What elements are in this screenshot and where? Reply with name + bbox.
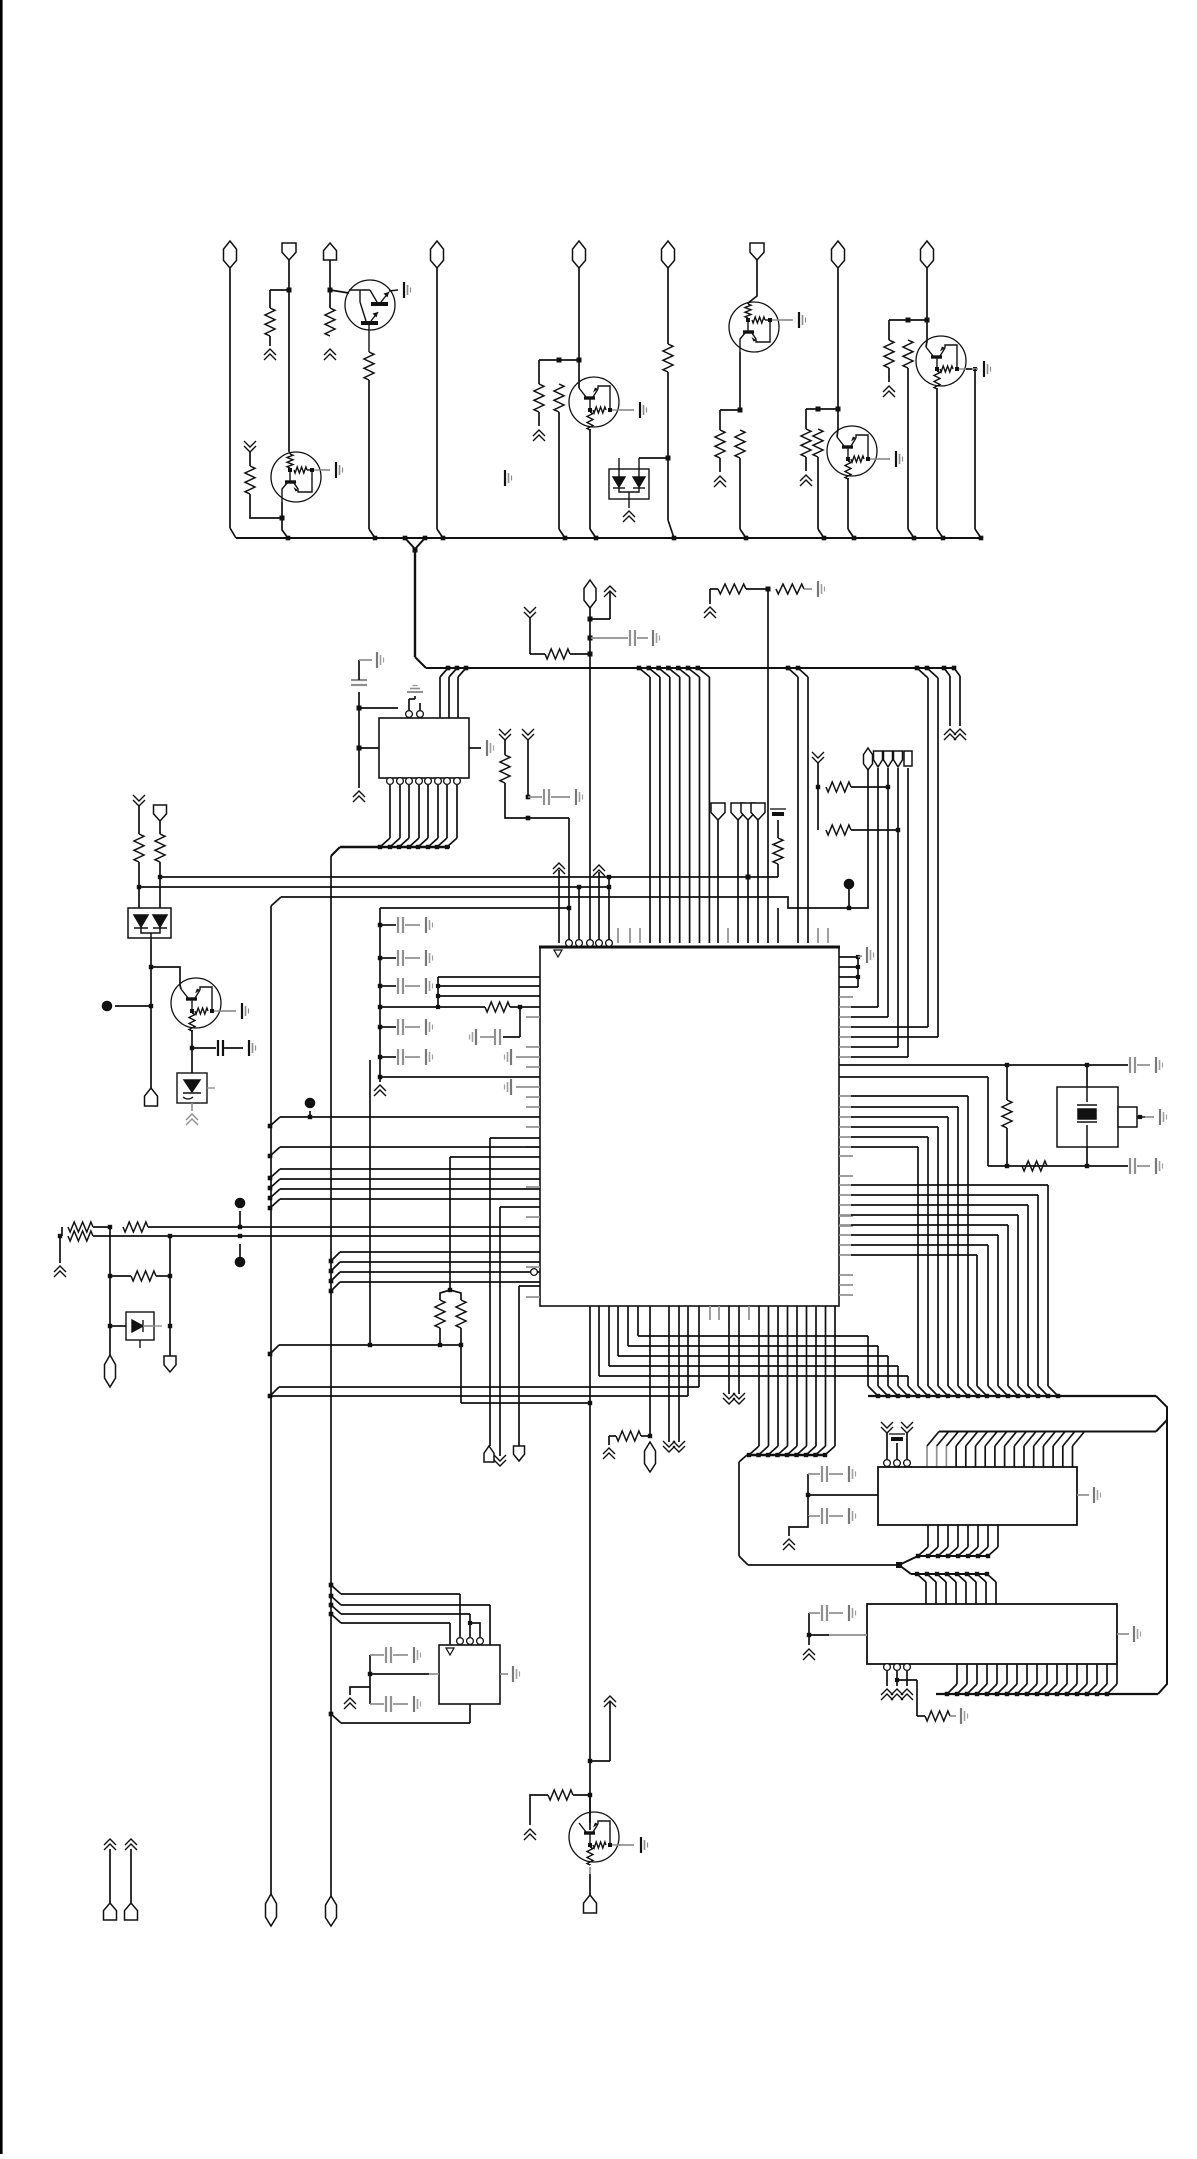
rail y1077 xyxy=(839,1076,988,1078)
wire bend xyxy=(659,668,670,677)
wire jog xyxy=(470,1623,480,1637)
bus ICR2-bot xyxy=(936,1693,1158,1695)
wire bend xyxy=(270,1179,280,1188)
wire drop xyxy=(967,1096,969,1386)
wire W1 xyxy=(269,290,271,308)
junction J71 xyxy=(378,1005,382,1009)
supply arrow xyxy=(593,865,605,876)
wire W29 xyxy=(888,368,890,382)
bus IC1-out xyxy=(340,846,450,849)
wire bend xyxy=(418,838,428,847)
IC U5 xyxy=(439,1645,500,1704)
wire IC1 pin xyxy=(439,677,441,718)
junction J22 xyxy=(912,536,917,541)
wire bend xyxy=(698,668,710,677)
junction J137 xyxy=(1046,1394,1050,1398)
wire bend xyxy=(825,1446,835,1455)
pin P20 xyxy=(894,1664,901,1671)
wire grey stub xyxy=(839,1184,851,1186)
wire bend xyxy=(998,1386,1008,1396)
bus U1-bot xyxy=(747,1454,827,1456)
resistor R7 xyxy=(663,344,673,372)
wire drop xyxy=(1007,1225,1009,1386)
wire W24 xyxy=(817,457,819,529)
wire grey xyxy=(405,985,420,987)
junction J41 xyxy=(416,845,420,849)
wire grey stub xyxy=(526,1126,540,1128)
wire ICR1 pin xyxy=(987,1525,989,1547)
resistor R6 xyxy=(554,384,564,412)
junction J7 xyxy=(738,408,743,413)
wire ICR2 pin xyxy=(1116,1664,1118,1684)
wire grey stub xyxy=(526,1016,540,1018)
wire W54 xyxy=(949,676,951,726)
wire W7 xyxy=(281,502,283,518)
connector P24 xyxy=(894,751,903,767)
wire W36 xyxy=(590,618,610,620)
wire bend xyxy=(944,668,950,676)
transistor Q3 xyxy=(569,377,619,430)
wire from P1 xyxy=(229,268,231,528)
supply arrow xyxy=(553,863,565,874)
junction J64 xyxy=(526,816,531,821)
rail y1007 xyxy=(851,1006,878,1008)
wire W92 xyxy=(156,1275,170,1277)
wire W82 xyxy=(439,1328,441,1345)
wire W32 xyxy=(966,368,972,370)
wire bend xyxy=(927,668,938,678)
wire IC1 pin xyxy=(437,785,439,838)
junction J168 xyxy=(945,1692,949,1696)
wire ICR1 pin xyxy=(1023,1446,1025,1467)
junction J179 xyxy=(1055,1692,1059,1696)
wire grey stub xyxy=(526,1186,540,1188)
junction J94 xyxy=(168,1274,172,1278)
resistor R29 xyxy=(826,825,851,835)
wire bend xyxy=(759,1446,769,1455)
wire W108 xyxy=(191,1048,193,1073)
rail y1236 xyxy=(93,1235,540,1237)
IC U4 xyxy=(867,1604,1117,1664)
junction J46 xyxy=(647,666,652,671)
wire grey xyxy=(619,409,634,411)
wire drop xyxy=(927,1137,929,1386)
wire riser xyxy=(897,768,899,1047)
junction J171 xyxy=(975,1692,979,1696)
wire drop xyxy=(887,1356,889,1386)
ground xyxy=(1156,1057,1163,1073)
wire grey xyxy=(405,924,420,926)
wire bend xyxy=(927,1432,939,1447)
junction J96 xyxy=(329,1259,334,1264)
wire bus-to-U1 xyxy=(689,677,691,943)
rail y1286 xyxy=(519,1285,540,1287)
pin P19 xyxy=(884,1664,891,1671)
resistor R28 xyxy=(826,782,851,792)
wire bend xyxy=(270,1199,280,1208)
ground xyxy=(641,1837,648,1853)
resistor R30 xyxy=(1002,1100,1012,1128)
junction J40 xyxy=(407,845,411,849)
wire W19 xyxy=(719,458,721,472)
rail y1107 xyxy=(851,1106,958,1108)
wire from P12 xyxy=(737,820,739,943)
wire W101 xyxy=(159,877,161,908)
wire bend xyxy=(1053,1432,1065,1447)
wire from P14 xyxy=(757,820,759,943)
junction J16 xyxy=(563,536,568,541)
wire bend xyxy=(1073,1432,1085,1447)
wire bend xyxy=(749,1446,759,1455)
wire grey stub xyxy=(748,1306,750,1320)
junction J191 xyxy=(329,1603,334,1608)
junction J131 xyxy=(985,1394,989,1398)
wire U1 pin xyxy=(806,1306,808,1446)
wire bend xyxy=(331,1714,341,1723)
pin P10 xyxy=(454,778,461,785)
supply arrow xyxy=(944,729,956,740)
wire W117 xyxy=(851,829,898,831)
wire IC1 pin xyxy=(448,677,450,718)
junction J57 xyxy=(925,666,930,671)
supply arrow xyxy=(663,1441,675,1452)
wire pin579 xyxy=(578,887,580,943)
junction J60 xyxy=(577,885,581,889)
resistor R34 xyxy=(616,1431,641,1441)
wire pin599 xyxy=(598,872,600,943)
wire W51 xyxy=(358,660,360,680)
junction J151 xyxy=(935,1572,939,1576)
wire W135 xyxy=(897,1679,917,1681)
wire grey xyxy=(972,368,978,370)
dual diode D1 D1 xyxy=(609,458,649,508)
junction J107 xyxy=(149,1004,153,1008)
junction J161 xyxy=(785,1453,789,1457)
wire grey xyxy=(500,1673,508,1675)
wire grey xyxy=(1137,1165,1150,1167)
ground xyxy=(1094,1487,1101,1503)
wire bend xyxy=(816,1446,826,1455)
wire W132 xyxy=(886,1671,888,1686)
ground xyxy=(961,1708,968,1724)
wire grey stub xyxy=(839,1016,851,1018)
wire W50 xyxy=(359,707,398,709)
wire bend xyxy=(282,518,288,538)
wire bend xyxy=(1008,1386,1018,1396)
rail y1117 xyxy=(851,1116,948,1118)
wire W152 xyxy=(369,1655,371,1687)
bus VCC xyxy=(236,537,981,539)
wire bend xyxy=(270,1147,280,1156)
junction J11 xyxy=(925,318,930,323)
wire W122 xyxy=(987,1077,989,1166)
junction J74 xyxy=(436,994,440,998)
capacitor C6 xyxy=(1130,1057,1135,1073)
pin P3 xyxy=(387,778,394,785)
connector P5 xyxy=(662,241,675,268)
junction J23 xyxy=(941,536,946,541)
pin P6 xyxy=(416,778,423,785)
wire riser xyxy=(937,678,939,1037)
wire ICR1 pin xyxy=(977,1525,979,1547)
junction J173 xyxy=(995,1692,999,1696)
wire bend xyxy=(987,1574,996,1582)
junction J68 xyxy=(378,984,382,988)
junction J83 xyxy=(268,1176,273,1181)
junction J45 xyxy=(637,666,642,671)
junction J6 xyxy=(666,456,671,461)
wire W145 xyxy=(609,1435,616,1437)
wire grey xyxy=(516,1056,540,1058)
junction J182 xyxy=(1085,1692,1089,1696)
wire bend xyxy=(369,529,375,538)
junction J73 xyxy=(436,984,440,988)
wire W131 xyxy=(808,1613,810,1645)
wire W93 xyxy=(169,1236,171,1356)
pin1 marker xyxy=(554,950,562,957)
junction J192 xyxy=(329,1612,334,1617)
wire W21 xyxy=(806,408,838,410)
ground xyxy=(407,686,423,693)
supply arrow xyxy=(54,1266,66,1277)
wire W89 xyxy=(59,1236,61,1263)
wire grey stub xyxy=(839,1194,851,1196)
wire bend xyxy=(975,529,981,538)
wire W28 xyxy=(888,320,890,340)
junction J108 xyxy=(190,1046,194,1050)
ground xyxy=(849,1508,856,1524)
connector P28 xyxy=(104,1903,117,1920)
wire bend xyxy=(1024,1432,1036,1447)
wire W138 xyxy=(590,1760,610,1762)
wire W105 xyxy=(191,1030,193,1048)
junction J184 xyxy=(1105,1692,1109,1696)
wire U1 pin679 xyxy=(678,1306,680,1442)
connector P22 xyxy=(874,751,883,767)
supply arrow xyxy=(714,476,726,487)
ground xyxy=(426,1019,433,1035)
wire drop xyxy=(947,1117,949,1386)
wire W73 xyxy=(380,1006,485,1008)
wire grey stub xyxy=(839,996,853,998)
wire W110 xyxy=(839,966,858,968)
wire W84 xyxy=(460,1328,462,1403)
wire grey stub xyxy=(839,1046,851,1048)
junction J111 xyxy=(856,975,860,979)
junction J39 xyxy=(397,845,401,849)
junction J100 xyxy=(268,1352,273,1357)
wire W156 xyxy=(109,1849,111,1903)
capacitor C11 xyxy=(386,1647,391,1663)
junction J154 xyxy=(965,1572,969,1576)
ground xyxy=(505,470,512,486)
junction J86 xyxy=(268,1206,273,1211)
junction J120 xyxy=(876,1394,880,1398)
wire bend xyxy=(1027,1684,1037,1694)
junction J130 xyxy=(976,1394,980,1398)
wire from P11 xyxy=(717,820,719,943)
wire from P6 xyxy=(748,260,757,303)
wire bend xyxy=(458,668,466,677)
wire bend xyxy=(928,1547,938,1556)
junction J185 xyxy=(588,1759,592,1763)
wire bend xyxy=(688,668,700,677)
connector P7 xyxy=(832,241,845,268)
wire bend xyxy=(270,1345,279,1354)
wire grey xyxy=(359,659,372,661)
wire W33 xyxy=(974,369,976,529)
wire W121 xyxy=(1086,1147,1088,1166)
wire bend xyxy=(409,838,419,847)
resistor R8 xyxy=(715,430,725,458)
wire bend xyxy=(437,838,447,847)
wire bend xyxy=(270,1189,280,1198)
IC U2 xyxy=(379,718,469,778)
diode D2 D1 xyxy=(126,1312,162,1348)
rail y1017 xyxy=(851,1016,888,1018)
connector P19 xyxy=(154,805,167,821)
wire W57 xyxy=(777,864,779,877)
wire grey xyxy=(877,458,890,460)
rail y1065 xyxy=(839,1064,1128,1066)
pin marker U5 xyxy=(446,1648,454,1655)
wire W88 xyxy=(239,1244,241,1262)
wire bend xyxy=(270,1117,280,1126)
wire grey xyxy=(221,1010,236,1012)
wire bend xyxy=(967,1574,976,1582)
wire U1 pin729 xyxy=(728,1306,730,1394)
node TP4 xyxy=(102,1001,113,1012)
junction J37 xyxy=(378,845,382,849)
rail y1594 xyxy=(341,1593,460,1595)
pin xyxy=(531,1269,538,1276)
wire drop xyxy=(1027,1205,1029,1386)
wire bus-to-U1 xyxy=(807,677,809,943)
wire grey xyxy=(370,1654,384,1656)
wire drop xyxy=(1037,1195,1039,1386)
wire W56 xyxy=(748,876,778,878)
rail y1166 xyxy=(988,1165,1128,1167)
wire ICR2 pin xyxy=(985,1582,987,1604)
wire W39 xyxy=(530,653,545,655)
capacitor C2 xyxy=(351,680,367,685)
ground xyxy=(249,1040,256,1056)
resistor R32 xyxy=(925,1711,950,1721)
resistor R31 xyxy=(1022,1161,1047,1171)
junction J126 xyxy=(936,1394,940,1398)
wire bend xyxy=(908,1386,918,1396)
supply arrow xyxy=(783,1539,795,1550)
wire grey xyxy=(950,1715,956,1717)
junction J186 xyxy=(588,1793,592,1797)
rail y1207 xyxy=(500,1206,540,1208)
wire drop xyxy=(957,1107,959,1386)
pin P9 xyxy=(444,778,451,785)
wire W25 xyxy=(837,409,838,437)
bus capbank xyxy=(379,908,381,1079)
wire ICR2 pin xyxy=(1106,1664,1108,1684)
wire U1 pin650 xyxy=(649,1306,651,1436)
wire bend xyxy=(1107,1684,1117,1694)
rail y1336 xyxy=(638,1335,868,1337)
wire ICR2 pin xyxy=(1006,1664,1008,1684)
wire riser xyxy=(877,768,879,1007)
ground xyxy=(849,1466,856,1482)
junction J53 xyxy=(796,666,801,671)
junction J177 xyxy=(1035,1692,1039,1696)
resistor R10 xyxy=(801,429,811,457)
junction J49 xyxy=(676,666,681,671)
resistor R13 xyxy=(903,340,913,368)
junction J81 xyxy=(459,1343,463,1347)
junction J146 xyxy=(976,1554,980,1558)
wire ICR1 pin xyxy=(927,1525,929,1547)
wire W15 xyxy=(639,457,668,459)
supply arrow xyxy=(603,1448,615,1459)
rail y1366 xyxy=(609,1365,898,1367)
wire drop xyxy=(907,1376,909,1386)
junction J153 xyxy=(955,1572,959,1576)
wire W66 xyxy=(380,985,396,987)
junction J3 xyxy=(280,516,285,521)
transistor Q8 xyxy=(569,1812,619,1865)
wire W127 xyxy=(807,1474,809,1516)
resistor R4 xyxy=(245,466,255,494)
connector P12 xyxy=(731,803,745,820)
wire grey stub xyxy=(839,1126,851,1128)
wire bend xyxy=(947,1684,957,1694)
wire ICR1 pin xyxy=(955,1446,957,1467)
junction J141 xyxy=(926,1554,930,1558)
wire column768 xyxy=(767,589,769,943)
connector P29 xyxy=(125,1903,138,1920)
wire riser xyxy=(887,768,889,1017)
wire W125 xyxy=(906,1433,908,1459)
resistor R19 xyxy=(485,1002,510,1012)
wire W35 xyxy=(589,608,591,619)
junction J10 xyxy=(906,318,911,323)
wire U1 pin599 xyxy=(598,1306,600,1376)
wire grey stub xyxy=(629,928,631,943)
capacitor C12 xyxy=(386,1696,391,1712)
junction J69 xyxy=(378,1025,382,1029)
junction J4 xyxy=(557,358,562,363)
wire bend xyxy=(270,1169,280,1178)
wire ICR1 pin xyxy=(1042,1446,1044,1467)
resistor R18 xyxy=(500,755,510,783)
wire grey stub xyxy=(526,1096,540,1098)
junction J21 xyxy=(852,536,857,541)
wire IC1 pin xyxy=(457,677,459,718)
capacitor C7 xyxy=(1130,1158,1135,1174)
junction J188 xyxy=(468,1621,472,1625)
rail A y877 xyxy=(160,876,748,878)
wire U1 pin xyxy=(768,1306,770,1446)
wire U1 pin609 xyxy=(608,1306,610,1366)
wire ICR1 pin xyxy=(957,1525,959,1547)
rail y1245 xyxy=(851,1244,988,1246)
capacitor C10 xyxy=(822,1605,827,1621)
rail y1605 xyxy=(341,1604,490,1606)
junction J194 xyxy=(329,1712,334,1717)
wire bend xyxy=(806,1446,816,1455)
junction J67 xyxy=(378,956,382,960)
wire bend xyxy=(449,668,457,677)
junction J114 xyxy=(896,828,900,832)
junction J165 xyxy=(823,1453,827,1457)
junction J29 xyxy=(588,636,593,641)
wire W8 xyxy=(539,359,579,361)
